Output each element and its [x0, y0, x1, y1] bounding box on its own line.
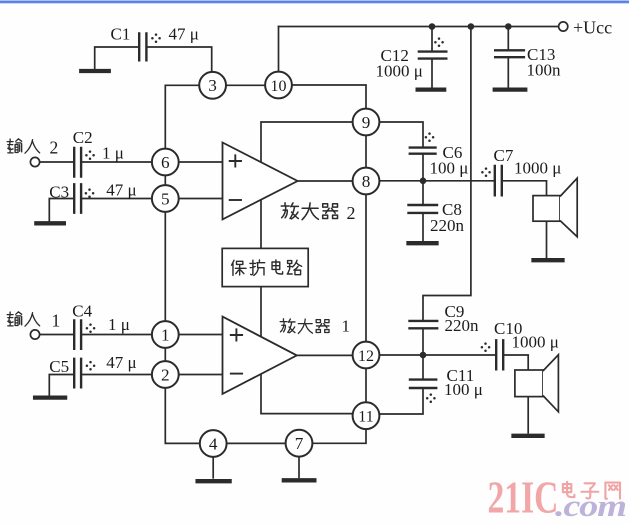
text fangdaqi (amplifier 2) [281, 203, 337, 220]
wire pin 6 to amplifier 2 + input [178, 161, 222, 163]
wire C6 to node at pin 8 [422, 155, 424, 177]
svg-text:2: 2 [50, 138, 59, 158]
input 2 terminal [30, 157, 39, 166]
svg-text:100 μ: 100 μ [430, 159, 469, 178]
capacitor C9 [410, 321, 438, 328]
svg-text:C7: C7 [494, 146, 514, 165]
wire C5 to pin 2 [82, 374, 152, 376]
capacitor C13 [495, 50, 524, 57]
text fangdaqi (amplifier 1) [280, 319, 329, 334]
svg-text:220n: 220n [445, 316, 480, 335]
svg-text:.com: .com [555, 488, 626, 523]
wire C10 to speaker 2 [504, 355, 528, 370]
svg-text:47 μ: 47 μ [169, 25, 199, 44]
wire protection box down through amplifier 1 to pin 11 [261, 287, 353, 414]
wire pin 9 feedback down through amplifier 2 to protection box [261, 122, 353, 248]
svg-text:47 μ: 47 μ [106, 181, 136, 200]
wire pin 1 to pin 2 [164, 348, 166, 362]
svg-text:6: 6 [161, 153, 170, 172]
ground at C13 [495, 87, 526, 91]
wire pin 4 to ground [212, 457, 214, 478]
svg-text:1 μ: 1 μ [108, 315, 130, 334]
svg-text:10: 10 [271, 78, 287, 95]
capacitor C1 [139, 34, 146, 61]
svg-text:100 μ: 100 μ [444, 380, 483, 399]
wire pin 1 to amplifier 1 + input [178, 334, 222, 336]
wire amplifier 2 output to pin 8 [297, 180, 354, 182]
svg-text:9: 9 [362, 113, 371, 132]
polarity mark C11 [426, 393, 436, 403]
pin 4 [200, 430, 227, 457]
text baohudianlu (protection circuit) [232, 260, 302, 275]
svg-text:100n: 100n [527, 61, 562, 80]
wire C1 left lead to ground [95, 47, 139, 69]
wire pin 5 to pin 1 [164, 212, 166, 322]
svg-text:7: 7 [295, 434, 304, 453]
text shuru (input 1) [7, 312, 40, 326]
svg-text:C5: C5 [49, 357, 69, 376]
polarity mark C5 [86, 361, 96, 371]
capacitor C11 [410, 380, 436, 388]
svg-text:8: 8 [362, 172, 371, 191]
capacitor C8 [409, 205, 438, 213]
wire pin 12 output to C10 [379, 354, 495, 356]
svg-text:21IC: 21IC [488, 471, 559, 522]
wire C1 right lead to pin 3 [148, 47, 212, 73]
polarity mark C6 [425, 132, 435, 142]
polarity mark C7 [481, 167, 491, 177]
wire C11 to pin 11 [379, 389, 423, 414]
ground at C12 [418, 87, 445, 91]
wire C7 to speaker 1 [503, 181, 547, 195]
watermark dianziwang [563, 482, 620, 499]
wire speaker 1 to ground [546, 221, 548, 258]
wire C9 to node at pin 12 [422, 329, 424, 352]
svg-text:2: 2 [161, 365, 170, 384]
svg-text:1: 1 [342, 317, 351, 336]
capacitor C12 [419, 52, 446, 59]
pin 5 [152, 185, 179, 212]
wire pin 10 to +Ucc rail [278, 27, 280, 73]
wire pin 2 to amplifier 1 - input [178, 374, 222, 376]
ground at C5 [35, 395, 65, 399]
wire C3 to pin 5 [82, 198, 152, 200]
svg-text:220n: 220n [430, 216, 465, 235]
wire C4 to pin 1 [82, 334, 152, 336]
speaker LS1 [533, 196, 560, 222]
svg-text:12: 12 [358, 348, 374, 365]
svg-text:C4: C4 [72, 302, 92, 321]
wire pin 8 down to pin 12 [365, 194, 367, 342]
input 1 terminal [30, 330, 39, 339]
ground at C1 [81, 69, 109, 73]
capacitor C7 [495, 166, 502, 195]
svg-text:1000 μ: 1000 μ [376, 62, 423, 81]
wire pin 3 to pin 10 [226, 84, 266, 86]
wire rail down to C9 (bootstrap) [423, 27, 471, 320]
polarity mark C4 [86, 323, 96, 333]
polarity mark C1 [151, 33, 161, 43]
pin 8 [353, 168, 380, 195]
polarity mark C3 [85, 188, 95, 198]
pin 10 [265, 72, 292, 99]
op-amp U1 (amplifier 1) [223, 317, 297, 394]
svg-text:1: 1 [161, 325, 170, 344]
ground at pin 4 [198, 479, 230, 483]
capacitor C2 [74, 148, 81, 177]
wire pin 4 to pin 7 [226, 442, 286, 444]
svg-text:4: 4 [209, 434, 218, 453]
wire +Ucc supply rail [279, 26, 559, 28]
speaker LS2 [515, 370, 543, 397]
svg-text:C2: C2 [73, 128, 93, 147]
wire C12 leads [431, 27, 433, 88]
svg-text:C3: C3 [49, 183, 69, 202]
wire pin 3 to pin 6 [165, 85, 199, 149]
+Ucc terminal [559, 22, 568, 31]
svg-text:2: 2 [347, 203, 356, 223]
wire pin 6 to pin 5 [164, 175, 166, 185]
ground at pin 7 [284, 478, 315, 482]
node rail-C12 junction [429, 23, 436, 30]
polarity mark C12 [434, 37, 444, 47]
wire speaker 2 to ground [527, 397, 529, 433]
wire pin 7 to pin 11 [312, 429, 366, 443]
wire pin 9 to C6 [379, 122, 423, 146]
node pin 12 output junction [420, 352, 427, 359]
pin 11 [353, 402, 380, 429]
wire pin 12 to pin 11 [365, 368, 367, 403]
svg-text:11: 11 [358, 409, 373, 426]
wire C5 left lead to ground [49, 375, 73, 395]
wire C8 to ground [422, 214, 424, 241]
capacitor C5 [74, 359, 81, 388]
capacitor C10 [496, 340, 503, 369]
wire input 1 terminal to C4 [40, 334, 73, 336]
wire C3 left lead to ground [49, 199, 73, 222]
node pin 8 output junction [420, 178, 427, 185]
ground at speaker 2 [514, 434, 543, 438]
wire C13 leads [507, 27, 509, 88]
svg-text:1 μ: 1 μ [102, 144, 124, 163]
wire input 2 terminal to C2 [40, 161, 73, 163]
wire pin 9 to pin 8 [365, 135, 367, 168]
svg-text:+Ucc: +Ucc [573, 18, 612, 38]
pin 9 [353, 109, 380, 136]
wire pin 7 to ground [298, 456, 300, 477]
svg-text:3: 3 [208, 76, 217, 95]
wire node to C8 [422, 183, 424, 204]
op-amp U2 (amplifier 2) [223, 143, 298, 220]
capacitor C4 [74, 321, 81, 349]
node rail-C13 junction [505, 23, 512, 30]
polarity mark C10 [481, 342, 491, 352]
pin 2 [152, 361, 179, 388]
wire pin 8 output to C7 [379, 180, 494, 182]
pin 1 [152, 321, 179, 348]
capacitor C3 [74, 184, 81, 212]
pin 7 [286, 430, 313, 457]
node rail-bootstrap junction [468, 23, 475, 30]
svg-text:1: 1 [52, 311, 61, 331]
protection circuit box [222, 248, 308, 286]
wire pin 2 down to pin 4 [165, 388, 200, 444]
wire amplifier 1 output to pin 12 [296, 354, 353, 356]
wire pin 10 to pin 9 [292, 85, 367, 109]
wire pin 5 to amplifier 2 - input [178, 198, 222, 200]
pin 12 [353, 342, 380, 369]
pin 6 [152, 149, 179, 176]
pin 3 [199, 72, 226, 99]
wire C2 to pin 6 [82, 161, 152, 163]
ground at C3 [36, 221, 64, 225]
svg-text:1000 μ: 1000 μ [514, 159, 561, 178]
polarity mark C2 [85, 150, 95, 160]
svg-text:5: 5 [161, 189, 170, 208]
wire node to C11 [422, 358, 424, 378]
top blue border bar [0, 0, 629, 1]
ground at C8 [409, 241, 437, 245]
svg-text:47 μ: 47 μ [106, 353, 136, 372]
capacitor C6 [410, 148, 436, 154]
svg-text:1000 μ: 1000 μ [512, 333, 559, 352]
text shuru (input 2) [7, 139, 40, 153]
svg-text:C1: C1 [111, 25, 131, 44]
ground at speaker 1 [534, 258, 563, 262]
